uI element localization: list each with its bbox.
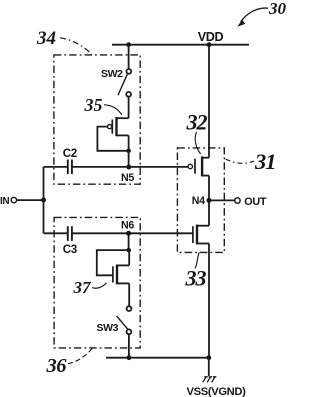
capacitor C2 (68, 160, 72, 175)
node N5 junction (126, 165, 131, 170)
node junction rail/SW2 (126, 42, 131, 47)
wire left branch vertical (43, 167, 45, 233)
svg-text:C3: C3 (63, 243, 78, 256)
leader for 36 (68, 349, 92, 364)
node junction gate/source of 35 (126, 149, 131, 154)
terminal IN (11, 197, 16, 202)
wire T37 source to SW3 (128, 283, 130, 306)
svg-text:VDD: VDD (198, 30, 224, 44)
svg-text:31: 31 (254, 149, 276, 174)
wire rail to SW2 (128, 45, 130, 69)
wire VDD rail (112, 44, 249, 46)
node junction rail/T33 (206, 355, 211, 360)
terminal OUT (235, 198, 240, 203)
ground symbol (203, 377, 217, 383)
dashed block 36 (54, 217, 140, 348)
svg-text:N4: N4 (192, 195, 205, 207)
wire N5 horizontal (C2 to T32 gate) (44, 166, 189, 168)
svg-text:SW2: SW2 (101, 68, 123, 80)
dashed block 31 (177, 148, 224, 253)
svg-text:37: 37 (73, 278, 93, 297)
svg-text:36: 36 (46, 355, 68, 377)
node N4 junction (207, 198, 212, 203)
svg-text:N6: N6 (121, 220, 134, 232)
ground stem (208, 358, 210, 376)
node junction rail/T32 (207, 42, 212, 47)
node junction rail/SW3 (126, 355, 131, 360)
transistor 32 (PMOS) (188, 156, 209, 176)
wire T32 drain to N4 (208, 176, 210, 201)
wire T37 gate loop (97, 250, 129, 275)
leader for 37 (92, 283, 107, 288)
svg-text:33: 33 (185, 266, 207, 291)
svg-text:30: 30 (268, 0, 287, 18)
svg-text:OUT: OUT (244, 196, 267, 208)
wire VSS rail (106, 357, 209, 359)
wire T33 source to VSS (208, 244, 210, 358)
leader for 31 (226, 159, 254, 163)
wire N4 to T33 drain (208, 200, 210, 225)
svg-text:32: 32 (186, 110, 208, 135)
svg-text:35: 35 (84, 95, 103, 115)
leader for 32 (195, 132, 200, 154)
leader for 35 (104, 105, 122, 115)
wire IN lead (17, 199, 44, 201)
node junction gate/drain of 37 (126, 248, 131, 253)
leader arrow for 30 (241, 8, 268, 22)
transistor 37 (NMOS diode-connected) (113, 250, 129, 284)
wire SW2 to T35 drain (128, 97, 130, 119)
capacitor C3 (68, 226, 72, 241)
svg-text:SW3: SW3 (97, 322, 119, 334)
transistor 35 (PMOS diode-connected) (108, 117, 129, 136)
leader for 34 (60, 38, 92, 55)
switch SW3 (117, 306, 132, 334)
wire N6 horizontal (C3 to T33 gate) (44, 232, 193, 234)
wire T35 gate loop (97, 127, 128, 151)
wire SW3 to VSS rail (128, 334, 130, 358)
wire rail to T32 source (208, 45, 210, 158)
leader for 33 (195, 252, 199, 268)
node junction IN split (41, 198, 46, 203)
wire N4 to OUT (209, 199, 235, 201)
svg-text:N5: N5 (121, 172, 134, 184)
svg-text:34: 34 (36, 28, 56, 49)
svg-text:IN: IN (0, 196, 9, 207)
svg-text:VSS(VGND): VSS(VGND) (187, 386, 247, 397)
transistor 33 (NMOS) (193, 225, 209, 245)
svg-text:C2: C2 (63, 147, 77, 160)
dashed block 34 (54, 55, 140, 184)
wire N6 to T37 (128, 233, 130, 250)
wire T35 source to N5 (128, 135, 130, 167)
switch SW2 (118, 69, 131, 97)
node N6 junction (126, 231, 131, 236)
